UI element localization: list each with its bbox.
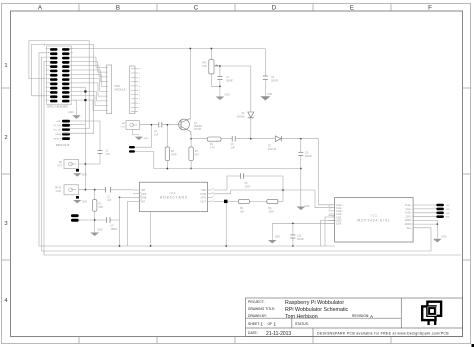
svg-text:4K7: 4K7 <box>195 155 200 157</box>
svg-text:DDS OUT: DDS OUT <box>56 143 70 147</box>
svg-text:DESIGNSPARK PCB available for: DESIGNSPARK PCB available for FREE at ww… <box>317 331 449 335</box>
svg-text:OFS: OFS <box>201 196 207 200</box>
svg-text:GPIO HEADER: GPIO HEADER <box>47 105 69 109</box>
svg-text:SDA: SDA <box>336 222 342 226</box>
svg-text:GND: GND <box>144 138 149 140</box>
svg-text:GND: GND <box>98 229 103 231</box>
svg-text:VPS: VPS <box>141 192 146 196</box>
svg-text:180NF: 180NF <box>111 229 118 231</box>
svg-text:VR1: VR1 <box>202 63 207 65</box>
svg-text:RF IN: RF IN <box>55 188 61 190</box>
svg-text:1: 1 <box>261 322 264 327</box>
svg-text:PROJECT:: PROJECT: <box>248 300 264 304</box>
svg-text:3: 3 <box>4 221 7 227</box>
svg-text:GND: GND <box>82 201 87 203</box>
svg-text:D: D <box>272 5 277 12</box>
svg-text:GND: GND <box>82 175 87 177</box>
svg-text:54R: 54R <box>99 207 104 209</box>
svg-text:1UF: 1UF <box>106 154 111 156</box>
svg-text:GND: GND <box>446 213 451 215</box>
svg-text:GND: GND <box>275 237 280 239</box>
svg-text:STATUS:: STATUS: <box>295 322 309 326</box>
svg-text:MCP3424-E/SL: MCP3424-E/SL <box>357 219 390 223</box>
svg-text:ADR0: ADR0 <box>405 222 412 226</box>
svg-text:100NF: 100NF <box>297 239 304 241</box>
svg-text:SHEET:: SHEET: <box>248 322 260 326</box>
svg-text:CH4-: CH4- <box>405 207 411 211</box>
svg-text:1: 1 <box>4 63 7 69</box>
svg-text:IC1: IC1 <box>169 191 176 195</box>
svg-text:21-11-2013: 21-11-2013 <box>266 331 291 337</box>
svg-text:1N4148: 1N4148 <box>236 117 245 119</box>
svg-text:CH3: CH3 <box>446 209 450 211</box>
svg-text:GND: GND <box>68 111 74 114</box>
svg-text:CH3-: CH3- <box>405 214 411 218</box>
svg-text:CH4: CH4 <box>446 205 450 207</box>
svg-text:GND: GND <box>56 121 61 123</box>
svg-text:IC2: IC2 <box>370 214 377 218</box>
svg-text:W_CLK: W_CLK <box>53 125 61 127</box>
svg-text:DATA: DATA <box>55 133 61 136</box>
svg-text:CH4+: CH4+ <box>405 203 412 207</box>
svg-text:1N4148: 1N4148 <box>268 149 277 151</box>
svg-text:AD8307ARZ: AD8307ARZ <box>160 196 188 200</box>
svg-text:10NF: 10NF <box>245 187 251 189</box>
svg-text:180UF: 180UF <box>305 156 312 158</box>
svg-text:B: B <box>116 5 120 12</box>
svg-text:SOT23: SOT23 <box>194 129 202 131</box>
svg-text:DRAWN BY:: DRAWN BY: <box>248 314 267 318</box>
svg-text:COM: COM <box>200 192 206 196</box>
svg-text:2: 2 <box>4 135 7 141</box>
svg-text:FQ_UD: FQ_UD <box>54 129 62 131</box>
svg-text:180UF: 180UF <box>226 81 233 83</box>
svg-text:470R: 470R <box>171 155 177 157</box>
svg-text:GND: GND <box>225 95 230 97</box>
svg-text:INP: INP <box>141 188 146 192</box>
svg-text:MODULE: MODULE <box>115 88 126 92</box>
svg-text:OUT: OUT <box>120 127 125 129</box>
svg-text:C10: C10 <box>297 236 302 238</box>
svg-text:10K: 10K <box>240 212 245 214</box>
svg-text:1UF: 1UF <box>107 200 112 202</box>
svg-text:4.7K: 4.7K <box>210 148 215 150</box>
svg-text:Raspberry Pi Wobbulator: Raspberry Pi Wobbulator <box>285 300 344 306</box>
svg-text:INM: INM <box>201 188 206 192</box>
svg-text:DDS: DDS <box>115 84 121 88</box>
svg-text:ADR1: ADR1 <box>405 218 412 222</box>
svg-text:OUT: OUT <box>57 166 62 168</box>
svg-text:LOW: LOW <box>56 191 62 193</box>
svg-text:GND: GND <box>442 237 447 239</box>
svg-text:OF: OF <box>268 322 273 326</box>
svg-text:E: E <box>350 5 354 12</box>
svg-text:1UF: 1UF <box>154 135 159 137</box>
svg-text:1: 1 <box>274 322 277 327</box>
svg-text:F: F <box>428 5 432 12</box>
svg-text:C: C <box>194 5 199 12</box>
svg-text:GND: GND <box>305 206 310 208</box>
svg-text:ENB: ENB <box>141 196 147 200</box>
svg-text:2N3904: 2N3904 <box>194 126 203 128</box>
svg-text:1KB: 1KB <box>202 66 207 68</box>
svg-text:DRAWING TITLE:: DRAWING TITLE: <box>248 307 275 311</box>
svg-text:CH3+: CH3+ <box>405 211 412 215</box>
svg-text:CH2-: CH2- <box>336 212 342 216</box>
svg-text:OUT: OUT <box>201 199 207 203</box>
svg-text:100K: 100K <box>269 212 275 214</box>
svg-text:INT: INT <box>141 199 146 203</box>
svg-text:1UF: 1UF <box>231 148 236 150</box>
svg-text:DATE:: DATE: <box>248 331 258 335</box>
svg-text:Tom Herbison: Tom Herbison <box>285 314 318 320</box>
svg-text:GND: GND <box>267 94 272 96</box>
svg-text:RPi Wobbulator Schematic: RPi Wobbulator Schematic <box>285 307 349 313</box>
svg-text:REVISION:: REVISION: <box>352 314 369 318</box>
svg-text:SCL: SCL <box>406 226 412 230</box>
svg-text:RESET: RESET <box>54 139 62 141</box>
svg-text:180UF: 180UF <box>271 81 278 83</box>
